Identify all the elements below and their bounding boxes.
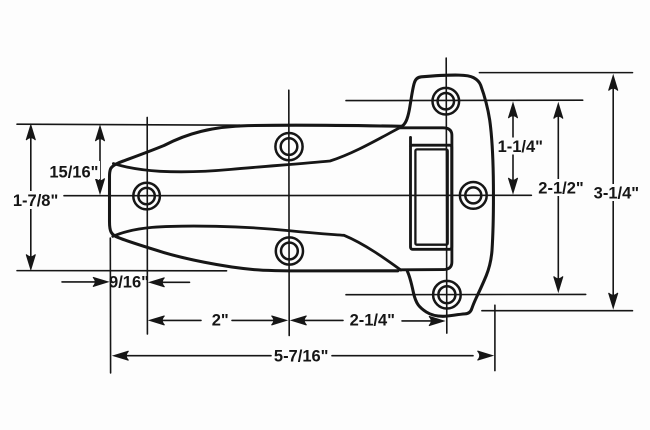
label 2-1/4"	[350, 312, 395, 330]
hole: bottom bracket hole	[433, 281, 461, 309]
wire: strap left edge extension line	[109, 238, 111, 373]
dimension arrow 2in right (pointing right)	[232, 319, 277, 321]
dimension arrow 15/16 vertical	[99, 129, 101, 190]
label 1-7/8"	[10, 191, 61, 210]
strike plate inner rectangle	[415, 149, 447, 244]
label 2-1/2"	[537, 179, 584, 198]
label 2"	[212, 312, 229, 330]
wire: top-left reference line	[17, 124, 240, 125]
wire: bottom-left reference line	[17, 270, 227, 272]
strike plate outer rectangle	[411, 145, 452, 249]
dimension arrow 2-1/4 left (pointing left)	[296, 319, 343, 321]
svg-text:5-7/16": 5-7/16"	[274, 348, 329, 366]
svg-text:2-1/2": 2-1/2"	[538, 180, 583, 198]
strap inner bottom line	[113, 226, 401, 270]
svg-text:1-7/8": 1-7/8"	[13, 192, 58, 210]
dimension arrow 3-1/4 vertical	[612, 79, 614, 304]
dimension arrow 2-1/4 right (pointing right)	[402, 320, 432, 322]
label 15/16"	[49, 161, 100, 182]
bracket outline	[402, 75, 494, 316]
wire: bracket right extension line	[494, 305, 496, 370]
wire: bottom bracket hole horizontal centerline	[346, 293, 586, 295]
svg-text:1-1/4": 1-1/4"	[498, 138, 543, 156]
wire: top bracket hole horizontal centerline	[346, 99, 583, 101]
strap inner top line	[113, 127, 401, 172]
dimension arrow 5-7/16 left (pointing left)	[118, 355, 271, 357]
wire: middle holes vertical centerline	[288, 90, 290, 335]
dimension arrow 9/16 left (pointing right)	[62, 281, 96, 283]
hole: top strap hole	[275, 133, 302, 160]
wire: bottom-right reference line	[482, 310, 633, 312]
hole: bottom strap hole	[276, 237, 303, 264]
dimension arrow 9/16 right (pointing left)	[154, 281, 190, 283]
label 1-1/4"	[497, 138, 544, 157]
svg-text:9/16": 9/16"	[109, 274, 149, 292]
hole: top bracket hole	[433, 88, 460, 115]
dimension arrow 1-1/4 vertical	[512, 106, 514, 190]
dimension arrow 2-1/2 vertical	[557, 107, 559, 288]
svg-text:15/16": 15/16"	[49, 164, 98, 182]
hole: middle right hole	[460, 182, 487, 209]
strap outer outline	[110, 125, 402, 271]
strike plate left edge stub	[409, 137, 412, 146]
dimension arrow 1-7/8 vertical	[30, 128, 32, 266]
dimension arrow 2in left (pointing left)	[155, 319, 201, 321]
bracket opening outline	[400, 128, 452, 270]
hole: left strap hole	[133, 183, 160, 210]
label 3-1/4"	[593, 184, 640, 203]
wire: top-right reference line	[479, 72, 632, 74]
wire: left hole vertical centerline	[146, 117, 148, 334]
label 9/16"	[109, 274, 149, 292]
label 5-7/16"	[272, 346, 331, 366]
svg-text:2-1/4": 2-1/4"	[350, 312, 395, 330]
dimension arrow 5-7/16 right (pointing right)	[332, 355, 473, 357]
svg-text:3-1/4": 3-1/4"	[594, 185, 639, 203]
svg-text:2": 2"	[212, 312, 229, 330]
wire: main horizontal centerline	[64, 194, 531, 196]
wire: bracket holes vertical centerline	[445, 58, 448, 333]
